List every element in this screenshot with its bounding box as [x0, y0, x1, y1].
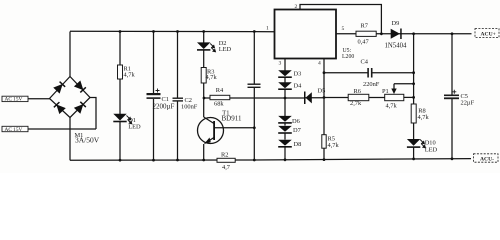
svg-text:LED: LED	[425, 147, 438, 154]
svg-text:4,7k: 4,7k	[206, 74, 218, 81]
svg-text:AC 15V: AC 15V	[5, 127, 23, 133]
svg-text:22µF: 22µF	[461, 99, 475, 106]
svg-text:BD911: BD911	[222, 115, 242, 123]
svg-text:4,7k: 4,7k	[386, 103, 398, 110]
svg-text:R4: R4	[216, 87, 224, 94]
svg-text:4,7k: 4,7k	[328, 142, 340, 149]
svg-text:D9: D9	[392, 20, 400, 27]
svg-text:0,47: 0,47	[358, 38, 370, 45]
svg-text:2: 2	[295, 4, 298, 10]
svg-text:ACU+: ACU+	[481, 32, 496, 38]
svg-text:4,7: 4,7	[222, 164, 231, 171]
svg-text:R2: R2	[221, 152, 228, 159]
svg-text:1: 1	[266, 26, 269, 32]
svg-text:ACU-: ACU-	[480, 156, 494, 162]
svg-text:1N5404: 1N5404	[385, 43, 408, 50]
svg-text:4,7k: 4,7k	[124, 72, 136, 79]
svg-text:5: 5	[342, 26, 345, 32]
svg-text:P1: P1	[382, 88, 389, 95]
svg-text:LED: LED	[219, 46, 232, 53]
svg-text:220nF: 220nF	[363, 81, 380, 88]
svg-text:3: 3	[279, 61, 282, 67]
svg-text:68k: 68k	[214, 100, 224, 107]
svg-text:LED: LED	[128, 124, 141, 131]
svg-text:D6: D6	[292, 118, 300, 125]
svg-text:4: 4	[318, 61, 321, 67]
svg-text:U5:: U5:	[343, 48, 352, 54]
svg-text:R6: R6	[354, 88, 361, 95]
svg-text:C4: C4	[361, 59, 369, 66]
svg-text:D10: D10	[425, 140, 436, 147]
svg-text:D4: D4	[294, 83, 303, 90]
svg-text:L200: L200	[342, 54, 354, 60]
svg-text:4,7k: 4,7k	[418, 114, 430, 121]
svg-text:2,7k: 2,7k	[350, 100, 362, 107]
svg-text:D3: D3	[294, 71, 302, 78]
svg-text:D5: D5	[318, 88, 326, 95]
svg-text:R7: R7	[361, 22, 369, 29]
svg-text:D8: D8	[294, 141, 302, 148]
svg-text:D7: D7	[293, 127, 302, 134]
svg-text:3A/50V: 3A/50V	[75, 136, 100, 145]
svg-text:AC 15V: AC 15V	[5, 97, 23, 103]
svg-text:100nF: 100nF	[181, 103, 198, 110]
svg-text:2200µF: 2200µF	[153, 103, 175, 111]
